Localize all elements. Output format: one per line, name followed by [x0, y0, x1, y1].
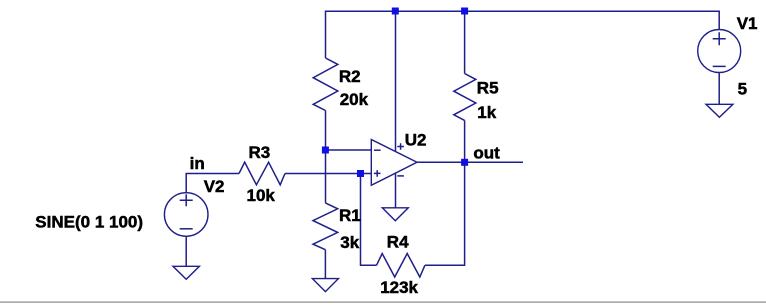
svg-text:123k: 123k: [380, 278, 418, 297]
svg-text:R3: R3: [249, 143, 271, 162]
svg-text:10k: 10k: [247, 186, 276, 205]
svg-text:R4: R4: [387, 233, 409, 252]
svg-text:20k: 20k: [340, 90, 369, 109]
svg-text:U2: U2: [405, 131, 427, 150]
svg-text:SINE(0 1 100): SINE(0 1 100): [35, 212, 143, 231]
svg-text:5: 5: [738, 79, 747, 98]
svg-text:3k: 3k: [340, 233, 359, 252]
svg-text:V1: V1: [737, 14, 758, 33]
svg-text:in: in: [190, 154, 205, 173]
svg-text:R1: R1: [339, 206, 361, 225]
svg-text:1k: 1k: [477, 103, 496, 122]
svg-text:V2: V2: [204, 177, 225, 196]
svg-text:R5: R5: [477, 79, 499, 98]
svg-text:out: out: [473, 144, 500, 163]
svg-text:R2: R2: [339, 67, 361, 86]
